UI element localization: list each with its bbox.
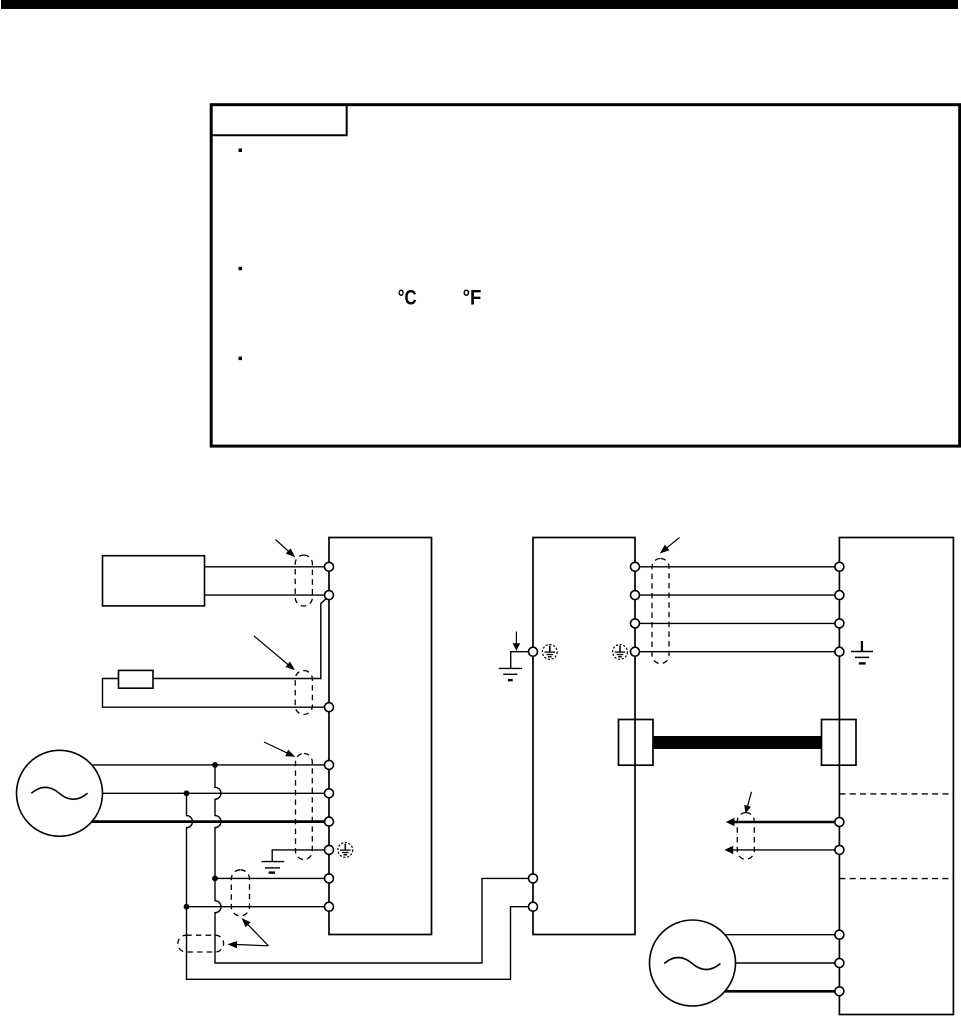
svg-text:°C: °C (398, 286, 417, 310)
svg-text:°F: °F (463, 286, 482, 310)
